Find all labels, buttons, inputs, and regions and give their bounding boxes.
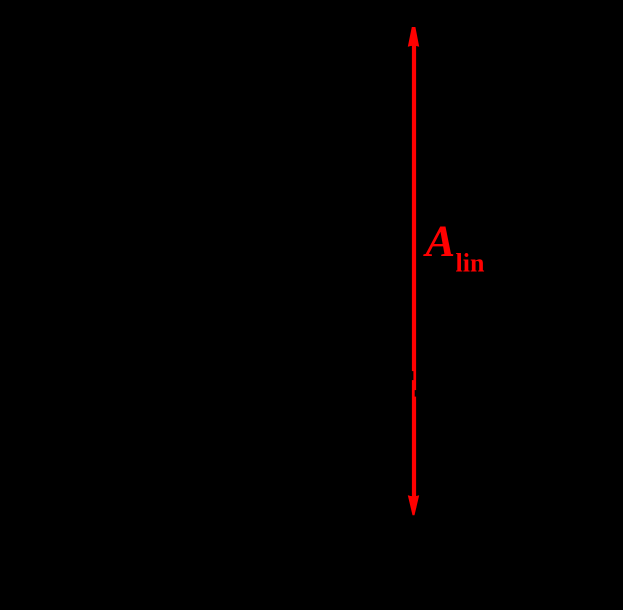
top arrowhead [408, 27, 419, 47]
bottom arrowhead [408, 495, 419, 515]
node: black curve crossing notch (right half) [415, 390, 419, 397]
wire: arrow shaft [412, 40, 416, 508]
svg-text:A: A [423, 215, 456, 265]
label A_lin [423, 215, 485, 277]
svg-text:lin: lin [456, 249, 485, 278]
node: black curve crossing notch (left half) [410, 371, 414, 380]
amplitude arrow A_lin (vertical red double-headed arrow) [408, 27, 419, 515]
